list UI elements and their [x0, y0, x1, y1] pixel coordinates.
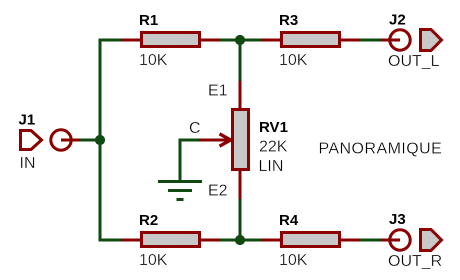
svg-text:E1: E1 [208, 83, 228, 100]
svg-text:10K: 10K [139, 52, 168, 69]
svg-text:10K: 10K [139, 252, 168, 269]
connector J2 [381, 12, 442, 71]
wire RV1 top [239, 40, 242, 81]
svg-text:R1: R1 [139, 12, 158, 29]
svg-text:LIN: LIN [259, 158, 284, 175]
node B junction (240,40) [235, 35, 245, 45]
svg-text:PANORAMIQUE: PANORAMIQUE [319, 141, 443, 158]
wire left rail [100, 40, 121, 240]
wire bottom middle [219, 239, 261, 242]
svg-text:OUT_R: OUT_R [388, 253, 442, 270]
svg-text:RV1: RV1 [259, 119, 288, 136]
svg-text:R4: R4 [279, 212, 299, 229]
svg-text:IN: IN [20, 155, 36, 172]
svg-text:C: C [189, 120, 201, 137]
wire RV1 bottom [239, 199, 242, 240]
ground [158, 182, 202, 200]
svg-text:22K: 22K [259, 139, 288, 156]
connector J3 [381, 211, 442, 270]
svg-text:J3: J3 [389, 211, 406, 228]
resistor R1 [121, 12, 219, 69]
wire wiper to ground [180, 140, 199, 180]
svg-text:J2: J2 [389, 12, 406, 29]
wire J1 to rail [80, 139, 100, 142]
wire bottom right [359, 239, 381, 242]
svg-text:OUT_L: OUT_L [388, 53, 440, 70]
svg-text:R3: R3 [279, 12, 298, 29]
wire top right [359, 39, 381, 42]
potentiometer RV1 [199, 81, 288, 199]
svg-text:J1: J1 [19, 112, 36, 129]
node A junction (100,140) [95, 135, 105, 145]
resistor R3 [261, 12, 359, 69]
svg-text:E2: E2 [208, 183, 228, 200]
connector J1 [19, 112, 81, 173]
svg-text:10K: 10K [279, 52, 308, 69]
svg-text:10K: 10K [279, 252, 308, 269]
resistor R4 [261, 212, 359, 269]
node C junction (240,240) [235, 235, 245, 245]
resistor R2 [121, 212, 219, 269]
wire top middle [219, 39, 261, 42]
svg-text:R2: R2 [139, 212, 158, 229]
